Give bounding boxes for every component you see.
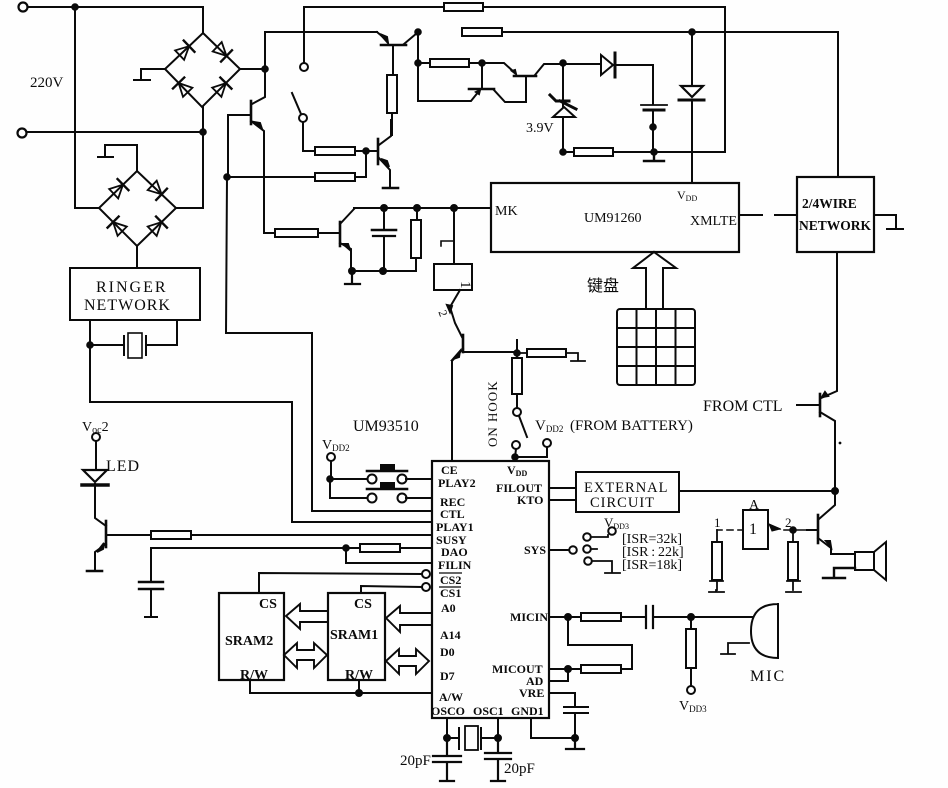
svg-text:CTL: CTL — [440, 507, 465, 521]
svg-text:RINGER: RINGER — [96, 279, 168, 296]
svg-text:1: 1 — [457, 281, 473, 289]
svg-text:SYS: SYS — [524, 543, 546, 557]
svg-text:PLAY2: PLAY2 — [438, 476, 476, 490]
svg-text:D0: D0 — [440, 645, 455, 659]
svg-text:ON HOOK: ON HOOK — [485, 380, 500, 447]
svg-text:CS1: CS1 — [440, 586, 461, 600]
svg-text:CS2: CS2 — [440, 573, 461, 587]
svg-text:MICIN: MICIN — [510, 610, 548, 624]
svg-text:EXTERNAL: EXTERNAL — [584, 480, 669, 496]
svg-text:UM91260: UM91260 — [584, 211, 642, 226]
svg-text:1: 1 — [749, 521, 757, 538]
svg-text:键盘: 键盘 — [587, 276, 619, 295]
svg-text:20pF: 20pF — [504, 761, 535, 777]
svg-text:MIC: MIC — [750, 668, 786, 685]
svg-text:PLAY1: PLAY1 — [436, 520, 474, 534]
svg-text:FILIN: FILIN — [438, 558, 472, 572]
svg-text:OSCO: OSCO — [431, 704, 465, 718]
svg-text:CS: CS — [354, 597, 372, 612]
svg-text:CS: CS — [259, 597, 277, 612]
svg-text:MK: MK — [495, 204, 518, 219]
svg-text:R/W: R/W — [240, 668, 268, 683]
svg-text:FROM CTL: FROM CTL — [703, 398, 783, 415]
svg-text:(FROM BATTERY): (FROM BATTERY) — [570, 418, 693, 434]
svg-text:GND1: GND1 — [511, 704, 544, 718]
svg-text:DAO: DAO — [441, 545, 468, 559]
svg-text:220V: 220V — [30, 75, 64, 91]
svg-text:1: 1 — [714, 515, 721, 530]
svg-text:2/4WIRE: 2/4WIRE — [802, 196, 857, 211]
svg-text:OSC1: OSC1 — [473, 704, 504, 718]
svg-text:KTO: KTO — [517, 493, 543, 507]
svg-text:A0: A0 — [441, 601, 456, 615]
svg-text:CE: CE — [441, 463, 458, 477]
svg-text:R/W: R/W — [345, 668, 373, 683]
svg-text:2: 2 — [785, 515, 792, 530]
svg-text:SRAM1: SRAM1 — [330, 628, 378, 643]
svg-text:LED: LED — [106, 458, 140, 475]
svg-text:A/W: A/W — [439, 690, 463, 704]
svg-text:NETWORK: NETWORK — [84, 297, 171, 314]
svg-text:NETWORK: NETWORK — [799, 218, 872, 233]
svg-text:A14: A14 — [440, 628, 461, 642]
svg-text:A: A — [749, 498, 760, 513]
svg-text:VRE: VRE — [519, 686, 544, 700]
svg-text:UM93510: UM93510 — [353, 418, 419, 435]
svg-text:[ISR=18k]: [ISR=18k] — [622, 558, 682, 573]
svg-text:XMLTE: XMLTE — [690, 214, 737, 229]
svg-text:SRAM2: SRAM2 — [225, 634, 273, 649]
svg-text:D7: D7 — [440, 669, 455, 683]
svg-text:3.9V: 3.9V — [526, 121, 554, 136]
svg-text:CIRCUIT: CIRCUIT — [590, 495, 655, 511]
svg-text:20pF: 20pF — [400, 753, 431, 769]
